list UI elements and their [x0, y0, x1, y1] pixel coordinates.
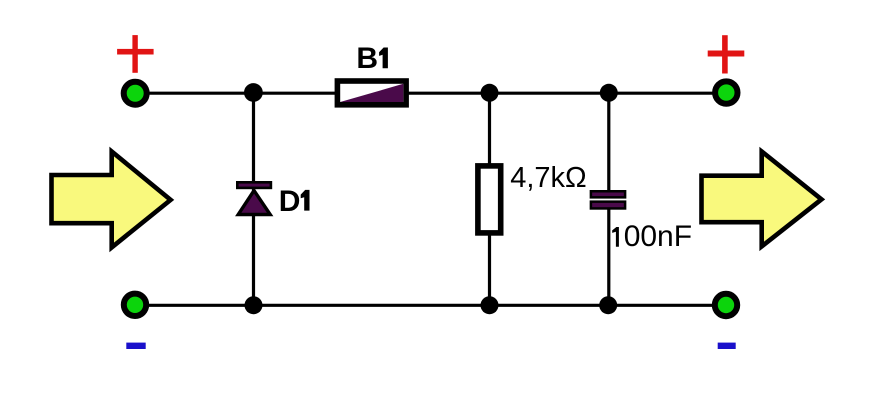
wire capacitor branch lower: [607, 206, 610, 305]
node junction bottom rail at resistor: [481, 296, 499, 314]
svg-text:D: D: [279, 185, 301, 218]
label 100nF: [612, 220, 692, 253]
diode D1 cathode bar: [237, 182, 271, 188]
wire top rail left segment: [135, 92, 336, 95]
svg-text:4,7kΩ: 4,7kΩ: [510, 162, 587, 194]
fuse B1: [335, 78, 409, 107]
terminal output -: [715, 294, 737, 316]
minus symbol input: [126, 343, 145, 349]
label B1: [356, 42, 388, 75]
node junction top rail at capacitor: [600, 84, 618, 102]
wire resistor branch: [488, 93, 491, 305]
node junction bottom rail at capacitor: [599, 296, 617, 314]
plus symbol input: [117, 35, 154, 73]
label D1: [279, 185, 310, 218]
input arrow: [52, 152, 171, 248]
wire bottom rail: [135, 304, 726, 307]
terminal output +: [715, 81, 737, 103]
svg-text:B: B: [356, 42, 378, 75]
label 4,7kOhm: [510, 162, 587, 194]
minus symbol output: [718, 343, 736, 349]
capacitor C1 bottom plate: [591, 202, 625, 209]
wire capacitor branch upper: [607, 93, 610, 193]
diode D1 triangle: [238, 191, 270, 215]
output arrow: [702, 152, 822, 247]
node junction top rail at resistor: [481, 84, 499, 102]
wire D1 branch: [252, 93, 255, 305]
terminal input -: [124, 294, 146, 316]
terminal input +: [124, 82, 147, 105]
plus symbol output: [708, 35, 745, 73]
capacitor C1 top plate: [591, 191, 625, 197]
node junction bottom rail at D1: [245, 296, 263, 314]
svg-text:00nF: 00nF: [624, 220, 692, 253]
resistor 4.7k: [475, 163, 503, 236]
wire top rail right segment: [408, 92, 726, 95]
node junction top rail at D1: [244, 83, 263, 102]
